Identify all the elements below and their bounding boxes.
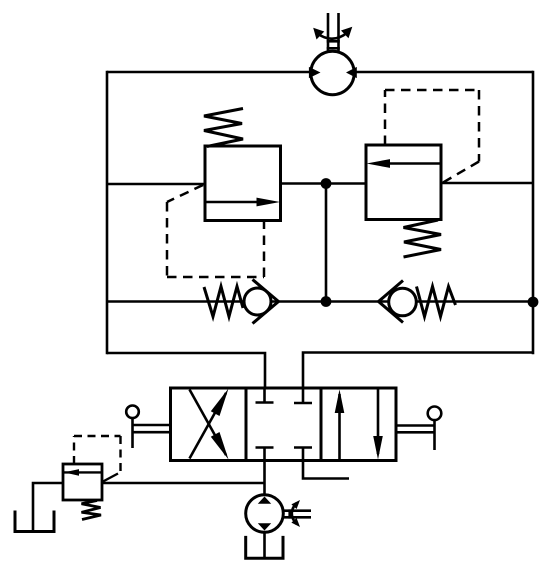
directional valve DV1 center position blocked ports <box>256 388 313 461</box>
wire left frame vertical <box>106 71 109 355</box>
check valve CV2 ball <box>389 288 417 316</box>
wire center vertical between relief line and check line <box>325 184 328 302</box>
directional valve DV1 body <box>171 388 397 461</box>
relief valve V3 pilot diagonal <box>103 474 118 482</box>
check valve CV1 spring <box>204 287 243 317</box>
node junction dot relief line <box>321 178 332 189</box>
motor M1 shaft <box>327 13 340 51</box>
wire V3 right to pump line <box>102 482 265 485</box>
tank T1 under pump <box>246 536 283 558</box>
wire pump to tank <box>263 532 266 557</box>
node junction dot check line right <box>528 297 539 308</box>
directional valve DV1 left position crossed arrows <box>190 389 229 460</box>
directional valve DV1 left actuator <box>126 406 170 449</box>
wire valve bottom left port to pump <box>263 461 266 497</box>
relief valve V2 spring <box>404 220 442 257</box>
motor M1 rotation arrow <box>313 27 352 40</box>
directional valve DV1 right actuator <box>396 407 441 451</box>
wire valve bottom right port elbow <box>303 461 349 479</box>
wire top line right of motor M1 <box>354 71 533 74</box>
wire right frame vertical <box>532 71 535 355</box>
motor M1 <box>309 51 357 94</box>
relief valve V2 pilot line <box>385 90 479 183</box>
wire relief line left segment <box>107 183 205 186</box>
wire V3 left to tank <box>33 483 63 530</box>
tank T2 bottom left <box>15 511 54 532</box>
wire bottom right connector to valve T port <box>303 353 533 389</box>
node junction dot check line center <box>321 296 332 307</box>
relief valve V1 body <box>205 146 281 221</box>
wire relief line middle segment <box>280 182 366 185</box>
wire top line left of motor M1 <box>107 71 311 74</box>
relief valve V3 pilot line <box>74 436 121 471</box>
relief valve V1 spring <box>204 109 243 147</box>
pump P1 rotation arrow <box>291 500 300 527</box>
check valve CV1 ball <box>244 288 271 315</box>
wire relief line right segment <box>441 182 533 185</box>
wire check valve line <box>107 300 533 303</box>
check valve CV1 seat <box>253 280 279 324</box>
relief valve V3 spring <box>82 501 102 520</box>
pump P1 shaft <box>284 509 312 518</box>
relief valve V3 body <box>63 464 102 500</box>
directional valve DV1 right position parallel arrows <box>335 388 383 461</box>
wire bottom left connector to valve P port <box>107 353 265 388</box>
pump P1 <box>246 495 284 533</box>
relief valve V1 pilot line <box>167 185 264 277</box>
check valve CV2 spring <box>417 287 456 317</box>
relief valve V2 body <box>366 145 441 220</box>
check valve CV2 seat <box>379 281 404 323</box>
